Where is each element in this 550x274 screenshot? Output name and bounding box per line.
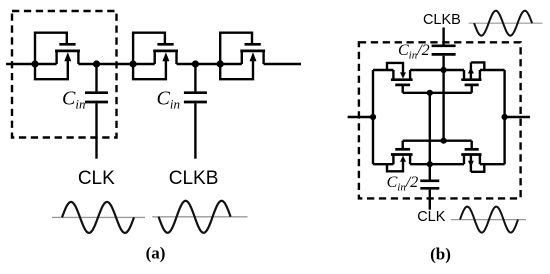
capacitor Cin (stage 1) bbox=[85, 64, 108, 159]
wire top gate line bbox=[403, 92, 472, 94]
svg-text:CLK: CLK bbox=[417, 209, 446, 225]
capacitor Cin (stage 2) bbox=[184, 64, 207, 159]
wire input (b) bbox=[348, 116, 373, 118]
transistor M7 (bottom-right of bridge) bbox=[461, 141, 484, 172]
node on bottom gate line bbox=[441, 138, 447, 144]
transistor M4 (top-left of bridge) bbox=[387, 63, 413, 93]
transistor M5 (top-right of bridge) bbox=[461, 62, 484, 92]
wire bottom rail segments bbox=[373, 163, 505, 165]
svg-text:(a): (a) bbox=[146, 244, 166, 263]
svg-text:CLKB: CLKB bbox=[169, 168, 219, 189]
transistor M3 (diode-connected NMOS, stage 3) bbox=[220, 33, 265, 79]
CLK sine waveform (a) bbox=[52, 202, 145, 233]
svg-text:(b): (b) bbox=[430, 245, 451, 264]
CLKB sine waveform (b) bbox=[469, 11, 543, 36]
node input of stage 3 bbox=[217, 60, 224, 67]
node right (b) bbox=[502, 114, 508, 120]
wire cross-coupling: top junction to bottom gates bbox=[442, 56, 444, 141]
svg-text:Cin: Cin bbox=[62, 88, 85, 112]
CLKB sine waveform (a) bbox=[152, 201, 247, 233]
dashed box around first stage (a) bbox=[12, 11, 117, 138]
svg-text:Cin/2: Cin/2 bbox=[387, 174, 419, 194]
wire right branch vertical bbox=[503, 70, 505, 164]
svg-text:Cin: Cin bbox=[157, 88, 180, 112]
node left (b) bbox=[370, 114, 376, 120]
CLK sine waveform (b) bbox=[451, 207, 526, 233]
wire cross-coupling: top gates to bottom junction bbox=[429, 93, 431, 180]
node bottom junction bbox=[427, 161, 433, 167]
wire output (b) bbox=[505, 116, 530, 118]
svg-text:Cin/2: Cin/2 bbox=[398, 42, 430, 62]
wire main signal line (a) bbox=[6, 63, 301, 65]
node input of stage 2 bbox=[130, 60, 137, 67]
wire bottom gate line bbox=[403, 139, 472, 141]
node output of stage 1 bbox=[93, 60, 100, 67]
capacitor Cin/2 (bottom) bbox=[420, 181, 439, 210]
wire top rail segments bbox=[373, 69, 505, 71]
transistor M2 (diode-connected NMOS, stage 2) bbox=[133, 33, 178, 79]
svg-text:CLK: CLK bbox=[78, 168, 115, 189]
dashed box (b) bbox=[359, 42, 521, 198]
node top junction bbox=[441, 67, 447, 73]
transistor M6 (bottom-left of bridge) bbox=[387, 141, 413, 172]
node on top gate line bbox=[427, 90, 433, 96]
wire left branch vertical bbox=[372, 70, 374, 164]
transistor M1 (diode-connected NMOS, stage 1) bbox=[35, 33, 80, 79]
capacitor Cin/2 (top) bbox=[432, 28, 456, 55]
svg-text:CLKB: CLKB bbox=[423, 12, 461, 28]
node output of stage 2 bbox=[192, 60, 199, 67]
node input of stage 1 bbox=[31, 60, 38, 67]
